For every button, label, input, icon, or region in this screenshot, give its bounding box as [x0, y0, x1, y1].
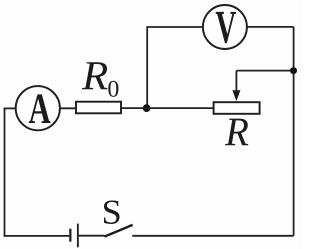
rheostat R: body	[214, 102, 260, 114]
wire: battery to switch pivot	[79, 235, 105, 237]
wire: resistor R0 to rheostat	[121, 107, 214, 109]
voltmeter U2: letter V	[216, 12, 236, 43]
rheostat R: wiper horizontal wire from right bus	[236, 70, 293, 72]
wire: vertical drop from top wire to middle node	[146, 27, 148, 108]
wire: ammeter to resistor R0	[60, 107, 76, 109]
battery: long plate (positive terminal)	[77, 224, 79, 248]
wire: right vertical	[293, 27, 295, 236]
node: junction dot middle	[143, 104, 151, 112]
node: junction dot right bus	[290, 67, 297, 74]
rheostat R: wiper vertical wire	[235, 71, 237, 91]
label S	[104, 200, 119, 224]
wire: top right (corner to voltmeter)	[247, 26, 294, 28]
label R (rheostat)	[225, 119, 248, 146]
wire: voltmeter to top tee	[146, 26, 203, 28]
wire: bottom left (to battery)	[4, 235, 70, 237]
wire: left vertical (battery negative to ammeter)	[4, 108, 6, 235]
switch S: lever (open blade)	[104, 225, 132, 237]
ammeter U1: circle	[16, 86, 60, 130]
label R0: subscript 0	[108, 81, 118, 97]
voltmeter U2: circle	[203, 5, 247, 49]
label R0: letter R	[82, 62, 108, 89]
ammeter U1: letter A	[29, 94, 51, 123]
wire: ammeter left stub	[4, 107, 16, 109]
wire: switch to bottom-right corner	[132, 235, 293, 237]
rheostat R: wiper arrowhead	[232, 90, 240, 101]
resistor R0: body	[76, 102, 121, 114]
battery: short plate (negative terminal)	[69, 229, 71, 242]
